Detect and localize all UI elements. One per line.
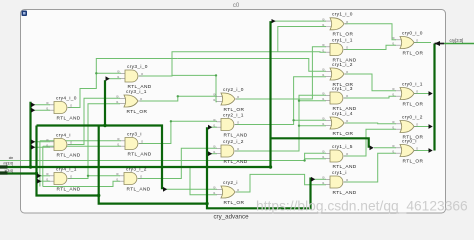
junction (30.5,167) <box>29 165 32 168</box>
wire cin rail <box>0 153 326 160</box>
bus m[3:0] <box>0 21 271 167</box>
gate cry4_i_1 AND <box>46 166 81 192</box>
wire stub cry2_i.I0 <box>164 188 217 190</box>
wire out cry0 gates to bus <box>414 42 431 44</box>
svg-text:RTL_OR: RTL_OR <box>403 158 424 164</box>
gate cry2_i_1 AND <box>213 112 248 138</box>
input ports <box>0 38 463 174</box>
svg-text:RTL_AND: RTL_AND <box>333 190 357 196</box>
svg-text:cin: cin <box>9 156 14 160</box>
module block c0 <box>21 10 446 214</box>
svg-text:cry2_i_1: cry2_i_1 <box>223 112 244 118</box>
wire stubs cry4_i inputs <box>32 141 50 143</box>
pin arrow (208,151.3) <box>208 151 212 156</box>
wire to cry2_i.I1 <box>190 167 217 195</box>
gate cry0_i OR <box>392 138 423 164</box>
gate cry4_i AND <box>46 132 81 158</box>
bus H1 <box>37 126 163 190</box>
svg-text:cry0_i_0: cry0_i_0 <box>402 30 423 36</box>
bus output cry <box>433 44 435 151</box>
svg-text:RTL_OR: RTL_OR <box>403 101 424 107</box>
pin arrow (428.5,91.1) <box>429 91 433 96</box>
wire cry3_i_0.O to cry1_i_0.I1 <box>139 52 326 76</box>
wire cry1_i_3.O to cry0_i_1.I1 <box>344 96 396 98</box>
wire cry3_i_2.O to cry2_i_2.I0 <box>138 148 217 178</box>
junction (207,203.6) <box>205 202 208 205</box>
bus bottom run <box>99 126 311 209</box>
gate cry2_i_2 AND <box>213 139 248 165</box>
svg-text:cry[3:0]: cry[3:0] <box>450 38 464 43</box>
gate cry1_i AND <box>322 170 357 196</box>
wire stubs cry4_i_1 inputs <box>38 175 50 177</box>
wire cry[3:0] exit <box>444 43 474 45</box>
svg-text:RTL_AND: RTL_AND <box>127 186 151 192</box>
wire cry3_i.O to cry2_i_1.I0 <box>139 121 217 143</box>
junction (36.5,173.5) <box>35 172 38 175</box>
connection arrows <box>31 19 440 192</box>
junction (299,125.7) <box>298 125 300 127</box>
wire stubs cry4_i_0 inputs <box>32 104 50 106</box>
gate cry1_i_2 OR <box>322 62 353 88</box>
wire cry2_i.O to cry1_i.I1 <box>236 174 326 192</box>
svg-text:RTL_OR: RTL_OR <box>224 200 245 206</box>
wire cry1_i_0.O to cry0_i_0.I0 <box>345 24 396 40</box>
svg-text:RTL_OR: RTL_OR <box>403 50 424 56</box>
wire cry2_i_2.O to cry1_i_3.I0 <box>235 95 326 151</box>
svg-text:RTL_AND: RTL_AND <box>128 151 152 157</box>
svg-text:RTL_AND: RTL_AND <box>333 164 357 170</box>
junction (98.7,195.5) <box>97 194 100 197</box>
junction (88,175.8) <box>87 175 89 177</box>
gate cry4_i_0 AND <box>46 95 81 121</box>
gate cry1_i_4 OR <box>322 111 353 137</box>
svg-text:cry4_i_1: cry4_i_1 <box>56 166 77 172</box>
svg-text:https://blog.csdn.net/qq_46123: https://blog.csdn.net/qq_46123366 <box>256 199 468 214</box>
svg-text:cry1_i: cry1_i <box>332 170 347 176</box>
gate cry0_i_1 OR <box>392 81 423 107</box>
gate cry2_i_0 OR <box>213 87 244 113</box>
wire branch to cry1_i_3.I1 <box>299 100 326 102</box>
wire cry1_i_2.O to cry0_i_1.I0 <box>345 74 396 91</box>
pin arrow (31,139.4) <box>31 139 35 144</box>
svg-text:RTL_OR: RTL_OR <box>333 131 354 137</box>
block icon <box>22 11 28 17</box>
gate cry2_i OR <box>213 180 244 206</box>
wire cry1_i_5.O to cry0_i_2.I1 <box>344 129 396 156</box>
svg-text:cry2_i_2: cry2_i_2 <box>223 139 244 145</box>
svg-text:cry0_i: cry0_i <box>402 138 417 144</box>
pin arrow (271.5,19) <box>272 19 276 23</box>
wire branch to cry1_i_4.I1 <box>299 125 326 127</box>
gate cry0_i_2 OR <box>392 114 423 140</box>
wire stub cry2_i_2.I1 <box>209 153 217 155</box>
pin arrow (440,41) <box>435 41 441 46</box>
bus V2 riser <box>37 126 99 196</box>
wire branch to cry1_i_0.I1 <box>278 27 326 52</box>
svg-text:RTL_AND: RTL_AND <box>224 132 248 138</box>
pin arrow (208,124.8) <box>208 125 212 130</box>
wire branch to cry1_i_5.I1 <box>305 158 326 160</box>
pin arrow (105.5,76.3) <box>106 76 110 81</box>
pin arrow (428.5,148.1) <box>429 148 433 153</box>
junction (299,100.7) <box>298 100 300 102</box>
thick bus wires <box>0 21 435 208</box>
thin wires group <box>0 21 431 195</box>
wire cry1_i_4.O to cry0_i_2.I0 <box>345 122 396 125</box>
svg-text:cry4_i_0: cry4_i_0 <box>56 95 77 101</box>
pin arrow (163,186.9) <box>163 187 167 192</box>
svg-text:cry3_i_1: cry3_i_1 <box>126 89 147 95</box>
wire branch to cry1_i_4.I0 <box>294 119 326 121</box>
svg-text:m[3:0]: m[3:0] <box>3 162 13 166</box>
pin arrow (428.5,124.1) <box>429 124 433 129</box>
svg-text:cry1_i_4: cry1_i_4 <box>332 111 353 117</box>
pin arrow (31,102.4) <box>31 102 35 107</box>
wire cry4_i_1.O to cry3_i_1.I1 <box>68 104 120 179</box>
pin arrow (369.5,145.4) <box>370 145 374 150</box>
svg-text:cry1_i_5: cry1_i_5 <box>332 144 353 150</box>
gate cry1_i_1 AND <box>322 37 357 63</box>
wire cry2_i_0.O to cry1_i_1.I0 <box>236 47 326 99</box>
bus col2 riser <box>104 80 106 125</box>
svg-text:RTL_AND: RTL_AND <box>57 115 81 121</box>
svg-text:RTL_AND: RTL_AND <box>57 186 81 192</box>
svg-text:cry0_i_2: cry0_i_2 <box>402 114 423 120</box>
junction (105,125.5) <box>103 124 106 127</box>
svg-text:cry4_i: cry4_i <box>56 132 71 138</box>
svg-text:cry3_i_0: cry3_i_0 <box>127 64 148 70</box>
wire output stub (dark) <box>435 43 445 45</box>
gate cry3_i AND <box>117 131 152 157</box>
bus col3 riser <box>206 127 208 203</box>
gate cry3_i_0 AND <box>117 64 152 90</box>
bus branch to cry0_i <box>271 138 369 148</box>
gate cry3_i_2 AND <box>116 166 151 192</box>
pin arrow (37,178.8) <box>37 179 41 184</box>
wire cry3_i_1.O to cry2_i_0.I0 <box>140 96 218 101</box>
wire stub to cry0_i.I0 <box>374 147 396 149</box>
pin arrow (37,173.4) <box>37 173 41 178</box>
wire stub cry2_i_1.I1 <box>209 126 217 128</box>
gate cry0_i_0 OR <box>392 30 423 56</box>
pin arrow (31,107.8) <box>31 108 35 113</box>
bus riser V-A <box>29 102 31 167</box>
svg-text:cry1_i_2: cry1_i_2 <box>332 62 353 68</box>
junction (304.6,160.5) <box>303 159 305 161</box>
junction (216,75.4) <box>215 74 217 76</box>
svg-text:c0: c0 <box>233 3 240 9</box>
svg-text:cry3_i: cry3_i <box>127 131 142 137</box>
wire cry4_i.O to cry3_i_1.I0 <box>68 98 120 144</box>
svg-text:cry3_i_2: cry3_i_2 <box>126 166 147 172</box>
wire cry1_i.O to cry0_i.I1 <box>344 153 396 182</box>
svg-text:RTL_OR: RTL_OR <box>127 109 148 115</box>
gate cry1_i_5 AND <box>322 144 357 170</box>
bus k[3:0] <box>0 172 37 174</box>
junction (170.9,121.3) <box>170 120 172 122</box>
gate cry1_i_0 OR <box>322 12 353 38</box>
pin arrow (311,176.9) <box>311 177 315 182</box>
wire stubs cry3_i inputs <box>40 141 121 187</box>
wire cry2_i_1.O to cry1_i_2.I1 <box>235 77 326 125</box>
svg-text:RTL_AND: RTL_AND <box>57 152 81 158</box>
wire rail to cry2_i_0.I1 <box>172 75 217 101</box>
svg-text:cry1_i_0: cry1_i_0 <box>332 12 353 18</box>
junction (177.8,96.3) <box>177 95 179 97</box>
wire cry4_i_0.O to cry3_i_0.I0 <box>68 73 121 107</box>
svg-text:cry1_i_1: cry1_i_1 <box>332 37 353 43</box>
gate cry3_i_1 OR <box>116 89 147 115</box>
svg-text:cry2_i_0: cry2_i_0 <box>223 87 244 93</box>
svg-text:cry_advance: cry_advance <box>213 214 249 221</box>
wire stub cry3_i_0.I1 <box>106 78 121 80</box>
wire arrow stub to cry1_i_0.I0 <box>274 20 326 22</box>
junction (96.3,73.3) <box>95 72 97 74</box>
svg-text:cry0_i_1: cry0_i_1 <box>402 81 423 87</box>
wire cry4_i_1.O to cry3_i_2.I0 <box>88 175 120 177</box>
wire branch y58 rail <box>96 59 178 74</box>
svg-text:RTL_AND: RTL_AND <box>224 159 248 165</box>
pin arrow (31,144.8) <box>31 145 35 150</box>
wire rail to cry1_i_1.I1 <box>178 59 326 72</box>
svg-text:cry1_i_3: cry1_i_3 <box>332 86 353 92</box>
svg-text:RTL_OR: RTL_OR <box>224 107 245 113</box>
junction (293.6,120.3) <box>292 119 294 121</box>
junction dots <box>29 124 272 206</box>
junction (270.5,167) <box>269 165 272 168</box>
gate cry1_i_3 AND <box>322 86 357 112</box>
wire stub cry1_i.I0 <box>312 178 326 180</box>
wire to cry3_i_2.I1 <box>43 181 120 186</box>
svg-text:RTL_OR: RTL_OR <box>333 32 354 38</box>
wire cry1_i_1.O to cry0_i_0.I1 <box>344 45 396 49</box>
svg-text:cry2_i: cry2_i <box>223 180 238 186</box>
